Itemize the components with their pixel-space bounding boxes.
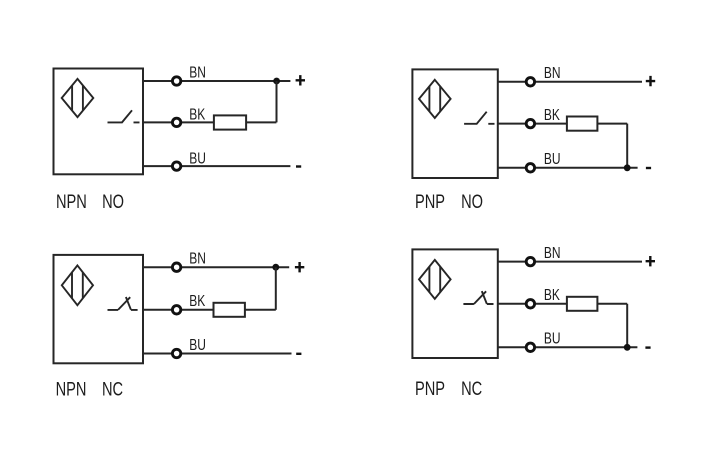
svg-text:NPN: NPN [56,191,87,212]
minus terminal Q1 [296,165,301,167]
plus terminal Q4 [646,256,655,266]
wire BN row Q1 [143,80,290,82]
sensor symbol (diamond) U4 [419,260,451,299]
svg-text:PNP: PNP [415,191,445,212]
wire BN row Q4 [498,261,642,263]
terminal BU Q2 [526,164,534,172]
plus terminal Q2 [646,76,655,86]
caption PNP NO [415,191,483,212]
NO switch contact S2 [464,112,494,124]
junction dot Q1 (+ node) [273,78,280,85]
caption NPN NC [56,379,124,400]
svg-text:NO: NO [461,191,483,212]
terminal BK Q3 [172,306,180,314]
wire BN row Q2 [498,81,642,83]
svg-text:BN: BN [544,63,561,81]
terminal BU Q3 [172,349,180,357]
junction dot Q3 (+ node) [272,264,279,271]
svg-text:BN: BN [544,243,561,261]
sensor box U3 (NPN NC) [54,255,144,363]
terminal BU Q4 [526,343,534,351]
svg-text:BU: BU [544,329,561,347]
svg-text:NO: NO [102,191,124,212]
label BU Q1 [189,149,206,167]
sensor box U1 (NPN NO) [54,69,144,175]
label BK Q1 [189,105,205,123]
terminal BN Q2 [526,78,534,86]
svg-text:NPN: NPN [56,379,87,400]
caption PNP NC [415,378,482,399]
label BK Q3 [189,291,205,309]
terminal BK Q2 [526,119,534,127]
resistor load RL Q1 [214,115,246,129]
NC switch contact S4 [463,291,493,304]
resistor load RL Q4 [567,297,598,311]
terminal BN Q3 [172,263,180,271]
terminal BN Q4 [526,257,534,265]
label BN Q1 [189,63,206,81]
label BN Q4 [544,243,561,261]
minus terminal Q2 [646,167,651,169]
minus terminal Q3 [296,353,301,355]
wire load-to-plus Q3 [275,267,277,310]
terminal BK Q4 [526,300,534,308]
sensor symbol (diamond) U2 [419,80,451,118]
wire BN row Q3 [143,266,289,268]
wire load-to-plus Q1 [276,81,278,122]
label BU Q3 [189,335,206,353]
wire load-to-minus Q2 [626,124,628,168]
svg-text:BK: BK [189,105,205,123]
sensor symbol (diamond) U1 [62,79,94,117]
wire BK row Q2 [498,123,627,125]
junction dot Q2 (- node) [624,164,631,171]
svg-text:NC: NC [102,379,123,400]
label BK Q4 [544,285,560,303]
label BN Q3 [189,249,206,267]
wire BK row Q3 [143,309,276,311]
svg-text:BU: BU [544,149,561,167]
svg-text:BN: BN [189,249,206,267]
svg-text:NC: NC [461,378,482,399]
terminal BU Q1 [172,162,180,170]
label BK Q2 [544,105,560,123]
svg-text:BU: BU [189,335,206,353]
svg-text:BK: BK [544,285,560,303]
svg-text:PNP: PNP [415,378,445,399]
svg-text:BK: BK [189,291,205,309]
wire BU row Q4 [498,346,638,348]
caption NPN NO [56,191,124,212]
wire BU row Q3 [143,353,292,355]
svg-text:BU: BU [189,149,206,167]
resistor load RL Q3 [214,303,245,317]
label BU Q2 [544,149,561,167]
wire load-to-minus Q4 [626,304,628,348]
label BU Q4 [544,329,561,347]
wire BU row Q1 [143,165,290,167]
resistor load RL Q2 [567,117,598,131]
plus terminal Q3 [295,262,304,272]
terminal BN Q1 [172,77,180,85]
wire BU row Q2 [498,167,638,169]
terminal BK Q1 [172,118,180,126]
sensor symbol (diamond) U3 [62,265,93,305]
wire BK row Q4 [498,303,627,305]
sensor box U4 (PNP NC) [412,249,497,358]
sensor box U2 (PNP NO) [412,69,497,178]
svg-text:BK: BK [544,105,560,123]
label BN Q2 [544,63,561,81]
plus terminal Q1 [296,75,305,85]
wire BK row Q1 [143,121,276,123]
NC switch contact S3 [108,297,138,310]
minus terminal Q4 [645,346,650,348]
junction dot Q4 (- node) [624,344,631,351]
NO switch contact S1 [108,110,140,122]
svg-text:BN: BN [189,63,206,81]
